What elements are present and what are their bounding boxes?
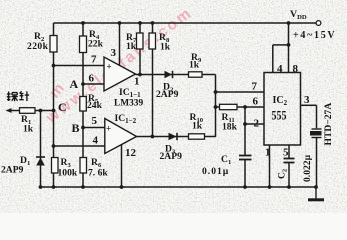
wire R9 to corner xyxy=(202,74,216,76)
node B junction xyxy=(81,126,85,130)
node rail 555 xyxy=(287,21,291,25)
node C junction xyxy=(52,109,56,113)
wire probe horizontal xyxy=(8,110,54,112)
node output2 xyxy=(151,135,155,139)
node rail R8 xyxy=(151,21,155,25)
wire C2 to ground rail xyxy=(288,163,290,188)
svg-text:+: + xyxy=(107,62,112,72)
svg-text:2AP9: 2AP9 xyxy=(156,89,179,100)
wire pin7 IC1-1 xyxy=(54,65,105,67)
node output1 xyxy=(138,73,142,77)
node rail pin3 xyxy=(118,21,122,25)
node gnd R3 xyxy=(52,185,56,189)
svg-text:0.01µ: 0.01µ xyxy=(202,166,229,177)
svg-text:A: A xyxy=(70,77,79,91)
wire pin6 IC1-1 xyxy=(83,83,104,85)
wire pin1 ground xyxy=(269,145,271,187)
node gnd pin1 xyxy=(268,185,272,189)
svg-text:22k: 22k xyxy=(88,39,104,50)
svg-text:1k: 1k xyxy=(160,42,171,53)
node 555 supply xyxy=(287,43,291,47)
svg-text:0.022µ: 0.022µ xyxy=(302,154,313,182)
resistor R3 xyxy=(52,157,78,179)
probe label 探针 (hand drawn) xyxy=(7,91,29,101)
wire pin3 down to piezo xyxy=(316,105,318,128)
resistor R9 xyxy=(189,52,203,77)
node gnd right xyxy=(314,185,318,189)
node pin4 tap xyxy=(52,144,56,148)
wire pin5 C2 xyxy=(288,145,290,159)
node D1 tap xyxy=(39,109,43,113)
resistor R8 xyxy=(149,32,171,53)
svg-text:1k: 1k xyxy=(192,121,203,132)
probe arrow xyxy=(6,108,12,113)
svg-text:7: 7 xyxy=(252,81,258,93)
svg-text:1: 1 xyxy=(134,76,140,88)
node pin6 xyxy=(243,105,247,109)
svg-text:18k: 18k xyxy=(222,122,238,133)
svg-text:5: 5 xyxy=(283,147,289,159)
wire D1 branch xyxy=(40,111,42,188)
svg-text:8: 8 xyxy=(293,63,299,75)
resistor R11 xyxy=(220,104,238,132)
svg-text:1k: 1k xyxy=(126,41,137,52)
svg-text:LM339: LM339 xyxy=(114,99,143,109)
wire pin7 555 xyxy=(216,91,265,93)
diode D3 xyxy=(160,133,183,162)
svg-text:2AP9: 2AP9 xyxy=(160,151,183,162)
diode D1 xyxy=(1,155,45,176)
svg-text:+: + xyxy=(106,124,111,134)
wire top supply rail xyxy=(54,22,317,24)
node gnd D1 xyxy=(39,185,43,189)
wire pin2 555 horizontal xyxy=(245,123,264,125)
svg-text:1k: 1k xyxy=(23,124,34,135)
wire pin4 555 xyxy=(272,45,274,73)
diode D2 xyxy=(156,71,179,100)
wire R10 to corner xyxy=(205,136,216,138)
svg-text:3: 3 xyxy=(304,94,310,106)
svg-text:24k: 24k xyxy=(87,100,103,111)
resistor R4 xyxy=(80,29,104,53)
node A junction xyxy=(81,82,85,86)
capacitor C2 xyxy=(277,154,314,182)
svg-text:12: 12 xyxy=(125,147,137,159)
svg-text:1: 1 xyxy=(265,147,271,159)
wire right vertical x=215.5 xyxy=(215,75,217,138)
resistor R1 xyxy=(20,108,36,135)
wire C1 to ground rail xyxy=(244,160,246,188)
wire IC1-2 output row xyxy=(137,136,189,138)
wire second vertical (R4/R5/R6 chain) xyxy=(82,23,84,187)
wire R11 row to pin6 xyxy=(216,106,265,108)
resistor R5 xyxy=(80,93,103,111)
wire C1 branch xyxy=(244,124,246,156)
node gnd pin12 xyxy=(120,185,124,189)
svg-text:4: 4 xyxy=(277,63,283,75)
node pin7 555 xyxy=(214,90,218,94)
wire pin2 555 xyxy=(244,107,246,124)
op-amp IC1-2 xyxy=(92,113,137,159)
ground xyxy=(308,187,324,200)
node rail R4 xyxy=(81,21,85,25)
svg-text:4: 4 xyxy=(93,135,99,147)
wire 555 supply drop xyxy=(288,23,290,73)
node R11 left xyxy=(214,105,218,109)
wire bottom ground rail xyxy=(41,186,317,188)
wire R8 branch xyxy=(152,23,154,137)
svg-text:6: 6 xyxy=(89,73,95,85)
svg-text:2AP9: 2AP9 xyxy=(1,165,24,176)
resistor R2 xyxy=(27,31,57,52)
wire left vertical (R2/R3 chain) xyxy=(53,23,55,187)
svg-text:1k: 1k xyxy=(189,60,200,71)
svg-text:555: 555 xyxy=(272,109,287,123)
svg-text:220k: 220k xyxy=(27,41,49,52)
wire pin3 IC1-1 supply xyxy=(119,23,121,66)
resistor R7 xyxy=(126,32,143,52)
wire piezo to ground xyxy=(316,138,318,187)
svg-text:5: 5 xyxy=(92,115,98,127)
wire pin4/pin8 strap xyxy=(273,44,289,46)
node pin2 xyxy=(243,122,247,126)
IC2 555 timer box xyxy=(252,63,311,159)
wire pin12 ground xyxy=(121,145,123,188)
wire pin4 IC1-2 xyxy=(54,145,105,147)
node rail R7 xyxy=(138,21,142,25)
piezo sounder HTD-27A xyxy=(310,103,334,146)
node pin7 tap xyxy=(52,64,56,68)
svg-text:+4~15V: +4~15V xyxy=(293,30,336,41)
wire R7 branch xyxy=(139,23,141,75)
svg-text:B: B xyxy=(72,121,80,135)
svg-text:3: 3 xyxy=(111,47,117,59)
svg-text:100k: 100k xyxy=(58,168,78,179)
scan noise xyxy=(0,0,1,1)
svg-text:7. 6k: 7. 6k xyxy=(88,168,108,179)
op-amp IC1-1 LM339 xyxy=(89,47,144,109)
node gnd R6 xyxy=(81,185,85,189)
resistor R6 xyxy=(80,157,108,179)
wire pin5 IC1-2 xyxy=(83,127,105,129)
svg-text:7: 7 xyxy=(91,54,97,66)
svg-text:2: 2 xyxy=(254,118,260,130)
node gnd C1 xyxy=(243,185,247,189)
svg-text:6: 6 xyxy=(253,96,259,108)
capacitor C1 xyxy=(202,154,252,177)
VDD terminal xyxy=(290,9,336,41)
resistor R10 xyxy=(189,112,205,139)
wire pin3 555 output xyxy=(301,104,317,106)
node gnd C2 xyxy=(287,185,291,189)
svg-text:C: C xyxy=(58,100,67,114)
svg-text:HTD−27A: HTD−27A xyxy=(323,103,334,146)
wire IC1-1 output row xyxy=(136,74,189,76)
